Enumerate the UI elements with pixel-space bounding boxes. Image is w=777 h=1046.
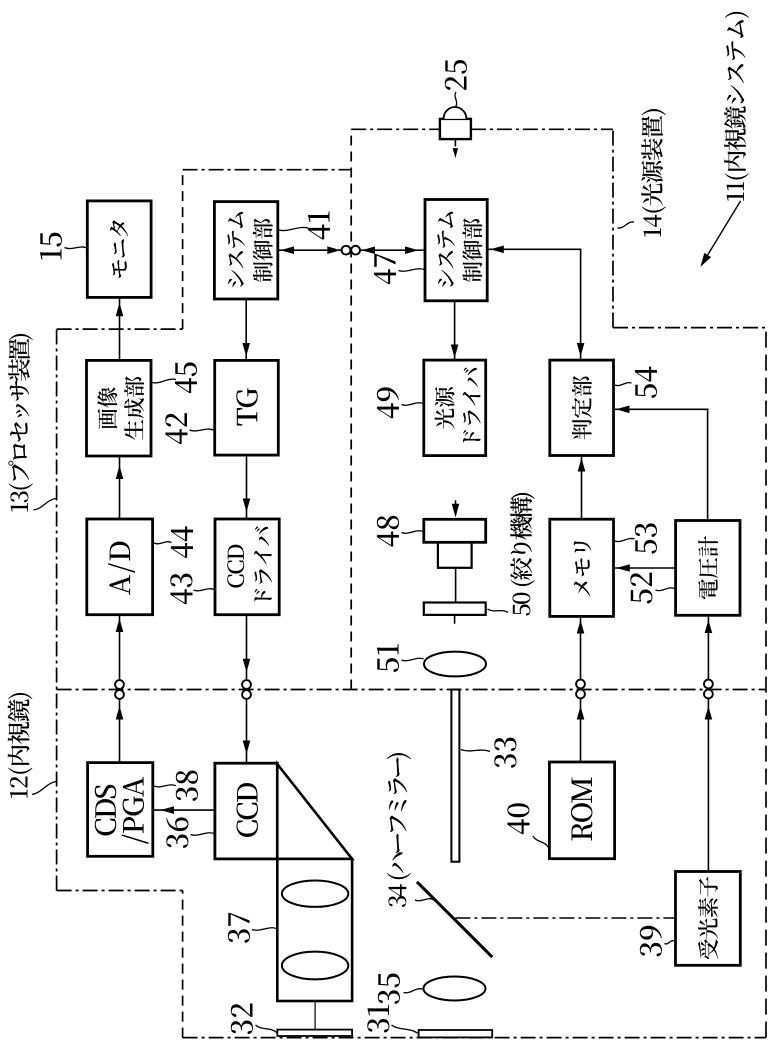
boundary: light source 14 bottom edge (long dashes) (765, 328, 767, 1038)
stub wire aperture left (454, 615, 456, 624)
boundary: dashed step between monitor and system-control column (182, 170, 184, 329)
box 41 system control unit システム制御部 (214, 202, 277, 299)
label 47 (system control light source) (374, 254, 396, 284)
boundary: light source unit 14 top edge (dashed) (350, 129, 352, 689)
label 34 half mirror 34 (ハーフミラー) (387, 753, 411, 907)
label 49 (lamp driver) (377, 387, 399, 418)
label 11 endoscope system 11(内視鏡システム) with arrow (724, 12, 749, 201)
wire system control 47 to lamp driver (454, 301, 456, 360)
illumination window 31 at distal end (419, 1030, 493, 1037)
lamp 48 (light source lamp with base) (438, 542, 472, 568)
connector pair on 41-47 bus (342, 246, 351, 255)
box U45 image generator 画像生成部 (87, 360, 152, 456)
prism under CCD (277, 764, 352, 859)
label 14 light source unit 14(光源装置) (641, 109, 666, 237)
wire TG to CCD driver (246, 455, 248, 519)
label 13 processor unit 13(プロセッサ装置) (8, 334, 33, 512)
wire memory to decision unit (581, 456, 583, 520)
label 50 aperture mechanism 50 (絞り機構) (510, 493, 535, 616)
boundary: processor 13 far right edge (vertical) (183, 169, 352, 171)
observation window 32 at distal end (277, 1030, 352, 1036)
label 48 (lamp) (377, 516, 399, 547)
wire CDS/PGA to A/D (through connector) (119, 615, 121, 763)
wire voltmeter to memory (614, 567, 676, 569)
label 41 (system control) (308, 211, 330, 239)
box 54 decision unit 判定部 (550, 360, 614, 455)
label 54 (decision unit) (635, 367, 657, 398)
label 38 (CDS/PGA) (176, 770, 198, 800)
box 15 monitor モニタ (87, 201, 151, 298)
boundary: endoscope 12 lower edge (dashed) (182, 891, 184, 1038)
lens element front (inside barrel) (282, 952, 348, 980)
label 43 (CCD driver) (170, 574, 192, 605)
box 39 light receiving element 受光素子 (676, 872, 741, 966)
box 43 CCD driver CCDドライバ (215, 519, 279, 615)
box 36 CCD image sensor (215, 763, 277, 859)
arrow lamp driver to lamp 48 (455, 500, 457, 515)
label 53 (memory) (635, 523, 657, 553)
wire system control 47 to decision unit 54 (L-shaped, bidirectional) (487, 249, 580, 360)
boundary: endoscope 12 left step (vertical) (57, 890, 183, 892)
objective lens barrel 37 (277, 859, 352, 1001)
label 36 (CCD) (166, 817, 188, 848)
box 40 ROM (549, 762, 614, 859)
half mirror 34 (417, 882, 492, 957)
box U44 A/D converter (87, 519, 153, 615)
boundary: light source 14 right edge lower part (471, 128, 613, 130)
condenser lens 51 (424, 652, 486, 677)
connector pair on ROM to memory wire (576, 690, 585, 699)
label 12 endoscope 12(内視鏡) (8, 693, 33, 798)
optical axis reflected up through prism (dash-dot) (277, 811, 315, 813)
label 45 (image generator) (175, 362, 197, 393)
wire voltmeter to decision unit (L-shaped) (613, 409, 707, 520)
label 44 (A/D) (171, 526, 193, 558)
wire CCD to CDS/PGA (153, 809, 215, 811)
box 53 memory メモリ (550, 519, 614, 616)
label 42 (TG) (165, 413, 187, 444)
light guide 33 (long thin bar) (451, 690, 459, 862)
connector pair on CDS/PGA to A/D wire (115, 690, 124, 699)
optical axis through objective lens barrel (314, 812, 316, 1030)
boundary: processor unit 13 / endoscope 12 top edge (56, 329, 58, 890)
illumination lens 35 (424, 977, 486, 1001)
wire system control 41 to TG (245, 299, 247, 360)
label 33 (light guide) (494, 738, 516, 768)
wire image generator to monitor (119, 297, 121, 360)
label 25 (connector lamp) with leader (445, 60, 467, 90)
wire light receiving element to voltmeter (through connector) (707, 615, 709, 871)
box 42 timing generator TG (215, 360, 279, 455)
box 49 lamp driver 光源ドライバ (424, 360, 486, 456)
wire A/D to image generator (119, 456, 121, 519)
lens element rear (inside barrel) (282, 881, 348, 907)
aperture / iris mechanism 50 (424, 603, 486, 615)
connector lamp symbol 25 (box with dome) (440, 119, 471, 139)
label 15 (monitor) (40, 233, 62, 260)
label 35 (illumination lens) (378, 973, 400, 1003)
connector pair on CCD driver to CCD wire (242, 690, 251, 699)
label 52 (voltmeter) (630, 573, 652, 604)
boundary: distal end plane of endoscope (left vertical dash-dot) (183, 1037, 766, 1039)
boundary: light source 14 bottom-right step (vertical) (613, 327, 766, 329)
wire CCD driver to CCD (through connector) (246, 615, 248, 764)
box U38 CDS/PGA (88, 763, 153, 857)
label 40 (ROM) (507, 803, 529, 834)
box 52 voltmeter 電圧計 (676, 521, 740, 616)
bus system control 41 to system control 47 (through connector) (278, 249, 425, 251)
stub wire lamp base to aperture (455, 568, 457, 603)
box 47 system control unit システム制御部 (light source) (425, 200, 487, 301)
label 51 (condenser lens) (377, 644, 399, 672)
boundary: light source 14 bottom-right step (horizontal) (612, 129, 614, 327)
boundary: processor 13 right step (vertical) (57, 328, 183, 330)
label 37 (lens barrel) (228, 913, 250, 943)
optical axis: half mirror to light receiving element (dash-dot) (455, 917, 675, 919)
wire ROM to memory (through connector) (580, 616, 582, 762)
label 39 (light receiving element) (640, 926, 662, 957)
stub and arrow at connector lamp 25 (454, 139, 456, 146)
label 31 (illumination window) (367, 1005, 389, 1033)
boundary: connector plane between endoscope/processor and light source (vertical) (57, 689, 765, 691)
label 32 (observation window) (231, 1003, 253, 1034)
boundary: light source 14 right edge upper part (351, 128, 440, 130)
connector pair on light receiving element wire (704, 690, 713, 699)
